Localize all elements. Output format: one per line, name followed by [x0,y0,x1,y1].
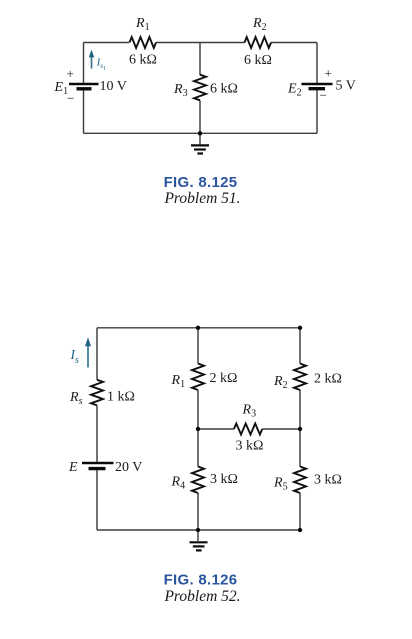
node dot top-middle (bottom circuit) [196,326,200,330]
svg-text:R5: R5 [273,476,288,493]
wire top-left segment (E1 top to R1) [84,42,130,44]
node dot R3 left [196,427,200,431]
svg-text:2 kΩ: 2 kΩ [314,372,342,387]
svg-text:R3: R3 [173,82,188,99]
svg-text:E1: E1 [54,80,69,97]
node dot top-right (bottom circuit) [298,326,302,330]
svg-text:6 kΩ: 6 kΩ [244,53,272,68]
wire middle column top to R1 [197,328,199,364]
svg-text:R1: R1 [135,16,150,33]
wire bottom of top circuit [84,132,318,134]
svg-text:FIG. 8.126: FIG. 8.126 [164,572,238,589]
node junction dot top circuit bottom-middle [198,131,202,135]
svg-text:Is1: Is1 [96,57,106,72]
resistor R1 zigzag (top circuit) [130,37,157,48]
battery E1 [69,84,99,89]
ground bottom circuit [190,542,208,550]
node dot R3 right [298,427,302,431]
wire right side above E2 [316,43,318,85]
battery E2 [302,84,333,89]
svg-text:R3: R3 [242,403,257,420]
svg-text:6 kΩ: 6 kΩ [210,82,238,97]
resistor R2 zigzag (top circuit) [245,37,272,48]
wire right side below E2 [316,89,318,134]
wire left column below E [96,469,98,531]
svg-text:FIG. 8.125: FIG. 8.125 [164,174,238,191]
wire bottom of bottom circuit [97,529,300,531]
svg-text:Is: Is [70,347,80,366]
svg-text:−: − [320,88,327,103]
wire top of bottom circuit [97,327,300,329]
resistor R4 zigzag [192,467,204,494]
wire middle column below R4 [197,493,199,530]
resistor R5 zigzag [294,467,306,494]
svg-text:Problem 51.: Problem 51. [163,190,240,207]
svg-text:E: E [68,460,78,475]
svg-text:3 kΩ: 3 kΩ [236,439,264,454]
wire R1 to middle node [156,42,200,44]
resistor R3 zigzag (top circuit) [194,75,206,101]
svg-text:2 kΩ: 2 kΩ [210,371,238,386]
wire ground stem bottom circuit [197,530,199,541]
wire R3 row left segment [198,428,234,430]
resistor Rs zigzag [91,380,103,406]
svg-text:6 kΩ: 6 kΩ [129,53,157,68]
wire left column Rs to E [96,405,98,463]
wire middle node to R2 [200,42,245,44]
svg-text:+: + [67,66,74,81]
node dot bottom-middle (bottom circuit) [196,528,200,532]
wire right column top to R2 [299,328,301,364]
svg-text:Problem 52.: Problem 52. [163,588,240,605]
wire R3 row right segment [262,428,300,430]
svg-text:E2: E2 [287,82,302,99]
wire left side above E1 [83,43,85,85]
wire R2 to top-right corner [271,42,317,44]
svg-text:5 V: 5 V [336,79,356,94]
svg-text:R4: R4 [171,475,186,492]
wire left side below E1 [83,89,85,134]
current arrow Is1 (top circuit) [89,50,94,69]
wire ground stem top circuit [199,133,201,144]
svg-text:20 V: 20 V [115,460,142,475]
svg-text:R1: R1 [171,373,186,390]
resistor R1 zigzag (bottom circuit) [192,364,204,391]
wire right column below R5 [299,493,301,530]
svg-text:R2: R2 [252,16,267,33]
svg-text:10 V: 10 V [100,79,127,94]
svg-text:3 kΩ: 3 kΩ [314,473,342,488]
current arrow Is (bottom circuit) [85,337,91,367]
svg-text:R2: R2 [273,374,288,391]
wire right column R2 to R5 [299,390,301,467]
node dot bottom-right (bottom circuit) [298,528,302,532]
svg-text:Rs: Rs [69,390,83,407]
svg-text:−: − [67,91,74,106]
resistor R2 zigzag (bottom circuit) [294,364,306,391]
svg-text:1 kΩ: 1 kΩ [107,390,135,405]
battery E (bottom circuit) [82,463,114,469]
wire middle column below R3 [199,101,201,134]
svg-text:3 kΩ: 3 kΩ [210,472,238,487]
wire middle column above R3 [199,43,201,76]
wire left column above Rs [96,328,98,380]
resistor R3 zigzag (bottom circuit) [234,424,262,435]
wire middle column R1 to R4 [197,390,199,467]
svg-text:+: + [325,66,332,81]
ground top circuit [191,145,209,153]
